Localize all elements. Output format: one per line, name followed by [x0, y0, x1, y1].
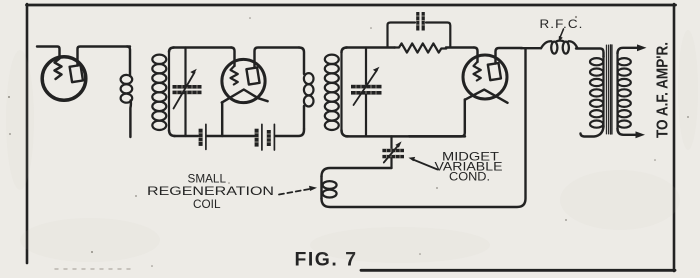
battery B cell2 negative plate	[267, 130, 271, 146]
antenna coil L1	[121, 75, 133, 103]
battery A negative plate	[199, 129, 203, 146]
midget variable condenser C5 top lead	[390, 136, 392, 148]
svg-text:COIL: COIL	[193, 197, 221, 211]
variable capacitor C4 plates	[351, 85, 382, 95]
antenna coil bottom lead (open)	[129, 101, 132, 138]
SMALL REGENERATION COIL dashed arrow	[279, 189, 310, 195]
wire resistor to V2 grid	[446, 46, 474, 48]
triode V2 plate	[488, 63, 501, 80]
midget variable condenser C5 plates	[382, 149, 404, 158]
svg-text:TO A.F. AMP'R.: TO A.F. AMP'R.	[655, 42, 672, 138]
detector crystal plate	[70, 65, 83, 82]
grid condenser C2 loop	[388, 23, 416, 48]
stage1 bottom rail	[174, 135, 198, 137]
border frame top	[27, 4, 676, 7]
triode V1 envelope	[222, 59, 265, 102]
detector crystal lead	[78, 47, 131, 66]
triode V1 filament	[222, 90, 268, 103]
battery B cell1 positive plate	[261, 124, 263, 150]
plate coil L3 top lead	[299, 48, 304, 75]
RFC label arrow	[560, 29, 564, 38]
small regeneration coil L5	[323, 181, 337, 189]
wire RFC to transformer primary	[576, 49, 604, 58]
variable capacitor C4 top lead	[365, 48, 367, 85]
regeneration loop left edge	[320, 176, 322, 199]
border frame right	[673, 4, 676, 271]
triode V1 grid zigzag	[231, 66, 238, 85]
plate coil L3 bottom lead	[303, 106, 305, 129]
battery A positive plate	[205, 124, 207, 149]
border frame left	[26, 4, 29, 263]
triode V2 envelope	[463, 55, 507, 99]
regeneration loop top edge	[322, 168, 392, 177]
battery B cell2 positive plate	[273, 124, 275, 150]
MIDGET label arrow	[413, 160, 438, 170]
transformer primary bottom lead	[581, 126, 604, 137]
wire stage1 top rail	[173, 46, 232, 48]
wire antenna input	[37, 47, 60, 59]
regeneration loop bottom edge	[322, 48, 526, 207]
variable capacitor C1 lead top	[184, 48, 186, 85]
variable capacitor C1 lead bottom	[184, 95, 186, 137]
triode V2 filament lead down	[409, 100, 465, 137]
triode V1 plate lead	[255, 48, 300, 68]
svg-text:R.F.C.: R.F.C.	[540, 17, 584, 31]
wire top to antenna coil	[127, 47, 130, 77]
detector cat-whisker zigzag	[55, 59, 62, 80]
stage2 bottom rail	[346, 135, 465, 137]
variable capacitor C4 bottom lead	[365, 95, 367, 137]
wire stage1 grid lead corner	[231, 48, 235, 67]
midget variable condenser C5 arrow	[384, 145, 399, 163]
grid coil L4 (stage 2)	[342, 48, 348, 53]
border frame bottom-left faded remnant	[55, 268, 130, 270]
output transformer T1 secondary winding	[616, 53, 618, 129]
battery B cell1 negative plate	[255, 129, 259, 147]
border frame bottom-right segment	[361, 269, 675, 272]
variable capacitor C1 plates	[173, 85, 202, 94]
variable capacitor C4 arrow	[354, 70, 378, 105]
RFC choke L6	[541, 41, 578, 54]
wire V2 plate to RFC	[521, 47, 541, 49]
wire battery A to V1 filament	[207, 135, 254, 137]
grid condenser C2 plates	[416, 12, 425, 31]
secondary top lead with arrow	[618, 48, 641, 54]
variable capacitor C1 arrow	[174, 73, 195, 109]
transformer T1 iron core	[605, 45, 607, 134]
grid leak resistor R1	[394, 43, 446, 52]
secondary bottom lead with arrow	[618, 129, 639, 135]
tuning coil L2 (stage 1 secondary)	[169, 48, 174, 53]
output transformer T1 primary winding	[602, 56, 604, 126]
triode V1 filament lead down	[221, 102, 223, 136]
stage2 top rail	[346, 46, 395, 48]
plate coil L3	[304, 73, 314, 106]
crystal detector D1 envelope	[42, 57, 86, 101]
triode V1 plate	[246, 67, 259, 84]
svg-text:COND.: COND.	[449, 170, 490, 184]
wire battery B to plate coil	[275, 129, 304, 136]
triode V2 filament	[465, 90, 508, 103]
triode V2 plate lead	[496, 48, 523, 64]
midget condenser bottom lead	[390, 158, 392, 168]
triode V2 grid zigzag	[474, 62, 481, 81]
